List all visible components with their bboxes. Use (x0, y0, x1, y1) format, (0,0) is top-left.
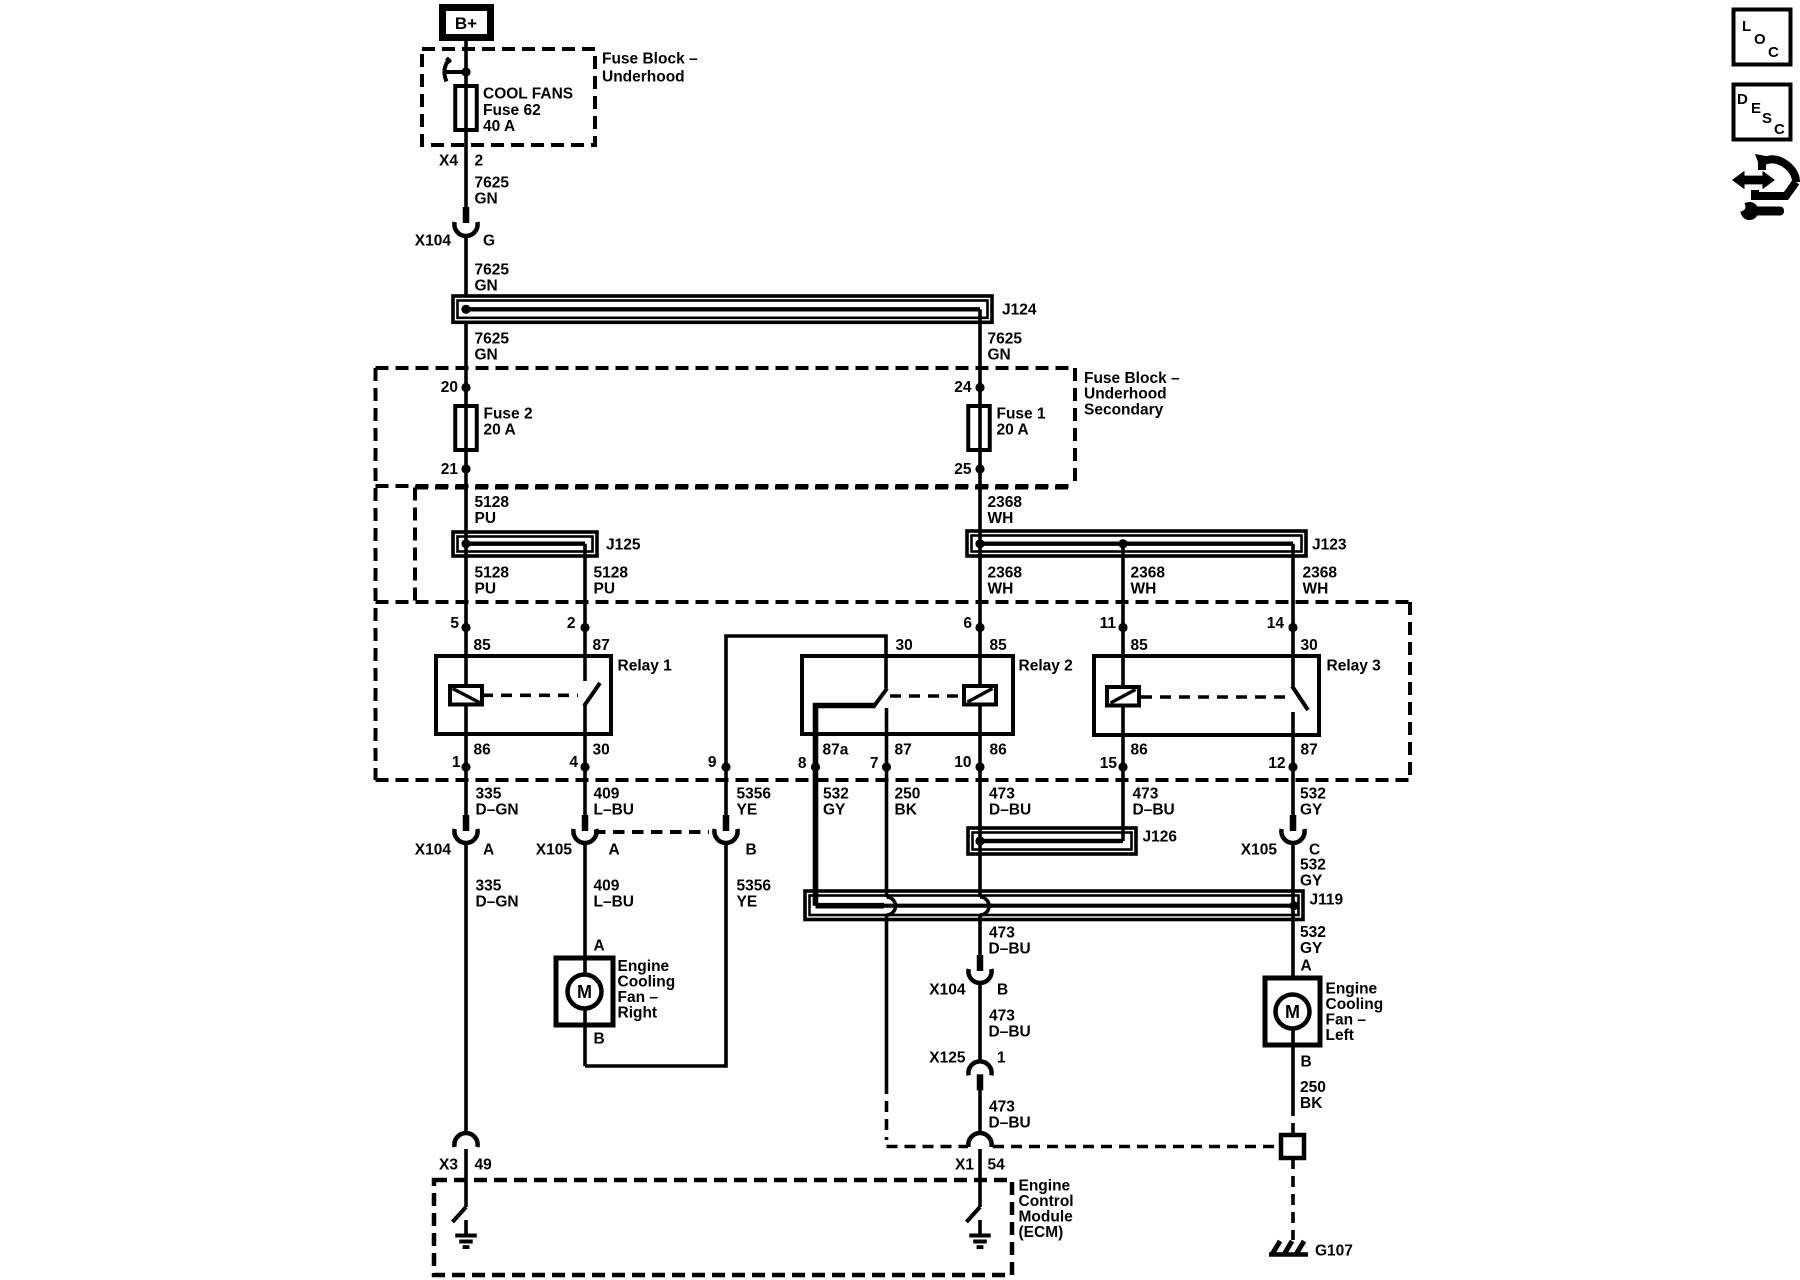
svg-text:Left: Left (1326, 1027, 1354, 1044)
svg-text:2: 2 (567, 615, 576, 632)
svg-text:M: M (577, 982, 592, 1002)
svg-text:YE: YE (737, 802, 758, 819)
svg-text:250: 250 (1300, 1079, 1326, 1096)
svg-text:Cooling: Cooling (1326, 996, 1384, 1013)
svg-text:B: B (997, 982, 1008, 999)
svg-text:L–BU: L–BU (594, 802, 634, 819)
svg-text:WH: WH (988, 581, 1014, 598)
svg-text:4: 4 (569, 754, 578, 771)
svg-text:85: 85 (1131, 637, 1149, 654)
svg-text:G: G (483, 233, 495, 250)
svg-text:87: 87 (1301, 742, 1318, 759)
svg-text:B+: B+ (455, 14, 477, 33)
svg-text:7625: 7625 (475, 175, 510, 192)
svg-text:5128: 5128 (594, 565, 629, 582)
svg-text:A: A (1301, 958, 1312, 975)
svg-text:Right: Right (618, 1005, 658, 1022)
svg-text:250: 250 (895, 786, 921, 803)
svg-text:87a: 87a (823, 742, 849, 759)
svg-text:86: 86 (1131, 742, 1149, 759)
svg-text:Secondary: Secondary (1084, 402, 1164, 419)
svg-text:8: 8 (798, 755, 807, 772)
svg-text:86: 86 (990, 742, 1008, 759)
svg-text:GY: GY (823, 802, 846, 819)
svg-text:X105: X105 (536, 842, 573, 859)
svg-text:30: 30 (896, 637, 913, 654)
svg-text:10: 10 (954, 754, 971, 771)
svg-text:GN: GN (475, 347, 498, 364)
svg-text:(ECM): (ECM) (1019, 1224, 1064, 1241)
svg-text:Fuse Block –: Fuse Block – (602, 51, 698, 68)
svg-text:12: 12 (1268, 755, 1285, 772)
svg-text:1: 1 (452, 754, 461, 771)
svg-text:335: 335 (476, 878, 502, 895)
svg-text:X105: X105 (1241, 842, 1278, 859)
svg-text:GN: GN (475, 191, 498, 208)
svg-text:7625: 7625 (988, 331, 1023, 348)
svg-text:5128: 5128 (475, 494, 510, 511)
svg-text:X104: X104 (415, 842, 452, 859)
svg-text:473: 473 (989, 1008, 1015, 1025)
svg-text:Fuse 62: Fuse 62 (483, 102, 541, 119)
svg-text:GY: GY (1300, 873, 1323, 890)
svg-text:G107: G107 (1315, 1243, 1353, 1260)
svg-text:2: 2 (475, 153, 484, 170)
svg-text:25: 25 (954, 461, 972, 478)
svg-text:YE: YE (737, 894, 758, 911)
svg-text:Module: Module (1019, 1209, 1074, 1226)
svg-text:2368: 2368 (988, 494, 1023, 511)
svg-text:409: 409 (594, 786, 620, 803)
svg-text:GY: GY (1300, 940, 1323, 957)
svg-text:X4: X4 (439, 153, 458, 170)
svg-text:M: M (1285, 1002, 1300, 1022)
svg-text:Cooling: Cooling (618, 974, 676, 991)
svg-text:D: D (1737, 91, 1748, 108)
svg-text:2368: 2368 (1131, 565, 1166, 582)
svg-text:E: E (1751, 100, 1761, 117)
svg-text:Relay 3: Relay 3 (1327, 658, 1382, 675)
svg-text:GY: GY (1300, 802, 1323, 819)
svg-text:87: 87 (593, 637, 610, 654)
svg-text:X104: X104 (929, 982, 966, 999)
svg-text:S: S (1762, 110, 1772, 127)
svg-text:7: 7 (870, 755, 879, 772)
svg-text:J123: J123 (1312, 537, 1347, 554)
svg-text:D–BU: D–BU (989, 941, 1031, 958)
svg-text:85: 85 (990, 637, 1008, 654)
svg-text:Relay 2: Relay 2 (1019, 658, 1073, 675)
svg-text:20: 20 (441, 379, 458, 396)
svg-text:5128: 5128 (475, 565, 510, 582)
svg-text:Relay 1: Relay 1 (618, 658, 673, 675)
svg-text:B: B (594, 1031, 605, 1048)
svg-text:24: 24 (954, 379, 972, 396)
svg-text:WH: WH (1131, 581, 1157, 598)
svg-text:PU: PU (475, 510, 497, 527)
svg-text:A: A (483, 842, 494, 859)
svg-text:COOL FANS: COOL FANS (483, 86, 573, 103)
svg-text:473: 473 (989, 786, 1015, 803)
svg-text:409: 409 (594, 878, 620, 895)
svg-text:335: 335 (476, 786, 502, 803)
svg-text:X3: X3 (439, 1157, 458, 1174)
svg-text:D–BU: D–BU (1133, 802, 1175, 819)
svg-text:20 A: 20 A (484, 422, 516, 439)
svg-text:Engine: Engine (1019, 1178, 1071, 1195)
svg-text:30: 30 (593, 742, 610, 759)
svg-text:Underhood: Underhood (602, 69, 685, 86)
svg-text:11: 11 (1100, 615, 1117, 632)
svg-text:Fuse 2: Fuse 2 (484, 406, 533, 423)
svg-text:A: A (609, 842, 620, 859)
svg-text:PU: PU (594, 581, 616, 598)
svg-text:1: 1 (997, 1050, 1006, 1067)
svg-text:WH: WH (988, 510, 1014, 527)
svg-text:J119: J119 (1310, 892, 1344, 909)
svg-text:Fan –: Fan – (1326, 1012, 1367, 1029)
svg-text:40 A: 40 A (483, 118, 515, 135)
svg-text:D–BU: D–BU (989, 1024, 1031, 1041)
svg-text:WH: WH (1303, 581, 1329, 598)
svg-text:14: 14 (1267, 615, 1285, 632)
svg-text:X125: X125 (929, 1050, 966, 1067)
svg-text:D–GN: D–GN (476, 894, 519, 911)
svg-text:L–BU: L–BU (594, 894, 634, 911)
svg-text:2368: 2368 (988, 565, 1023, 582)
svg-text:B: B (1301, 1054, 1312, 1071)
svg-text:532: 532 (1300, 786, 1326, 803)
svg-text:87: 87 (895, 742, 912, 759)
svg-text:GN: GN (988, 347, 1011, 364)
svg-text:GN: GN (475, 278, 498, 295)
svg-text:54: 54 (988, 1157, 1006, 1174)
svg-text:5: 5 (450, 615, 459, 632)
svg-text:7625: 7625 (475, 331, 510, 348)
svg-text:5356: 5356 (737, 786, 772, 803)
svg-text:473: 473 (989, 1099, 1015, 1116)
svg-text:PU: PU (475, 581, 497, 598)
svg-text:J126: J126 (1143, 829, 1178, 846)
svg-text:9: 9 (708, 754, 717, 771)
svg-text:BK: BK (895, 802, 918, 819)
svg-text:A: A (594, 938, 605, 955)
svg-text:C: C (1774, 121, 1785, 138)
svg-text:30: 30 (1301, 637, 1318, 654)
svg-text:6: 6 (963, 615, 972, 632)
svg-text:B: B (746, 842, 757, 859)
svg-text:O: O (1754, 31, 1766, 48)
svg-text:5356: 5356 (737, 878, 772, 895)
svg-text:2368: 2368 (1303, 565, 1338, 582)
svg-text:L: L (1742, 18, 1751, 35)
svg-text:85: 85 (474, 637, 492, 654)
svg-text:532: 532 (823, 786, 849, 803)
svg-text:Fuse 1: Fuse 1 (997, 406, 1046, 423)
svg-text:Engine: Engine (618, 958, 670, 975)
svg-text:D–BU: D–BU (989, 1115, 1031, 1132)
svg-text:20 A: 20 A (997, 422, 1029, 439)
svg-text:532: 532 (1300, 924, 1326, 941)
svg-text:C: C (1768, 44, 1779, 61)
svg-text:473: 473 (989, 925, 1015, 942)
svg-text:X1: X1 (955, 1157, 974, 1174)
svg-text:21: 21 (441, 461, 459, 478)
svg-text:D–GN: D–GN (476, 802, 519, 819)
svg-text:7625: 7625 (475, 262, 510, 279)
svg-text:Underhood: Underhood (1084, 386, 1167, 403)
svg-text:Control: Control (1019, 1193, 1074, 1210)
svg-text:49: 49 (475, 1157, 493, 1174)
svg-text:J125: J125 (606, 537, 641, 554)
svg-text:X104: X104 (415, 233, 452, 250)
svg-text:D–BU: D–BU (989, 802, 1031, 819)
svg-text:473: 473 (1133, 786, 1159, 803)
svg-text:Engine: Engine (1326, 981, 1378, 998)
svg-text:Fan –: Fan – (618, 989, 659, 1006)
svg-text:Fuse Block –: Fuse Block – (1084, 370, 1180, 387)
svg-text:86: 86 (474, 742, 492, 759)
svg-text:532: 532 (1300, 857, 1326, 874)
svg-text:BK: BK (1300, 1095, 1323, 1112)
svg-text:J124: J124 (1002, 302, 1037, 319)
svg-text:15: 15 (1100, 755, 1118, 772)
